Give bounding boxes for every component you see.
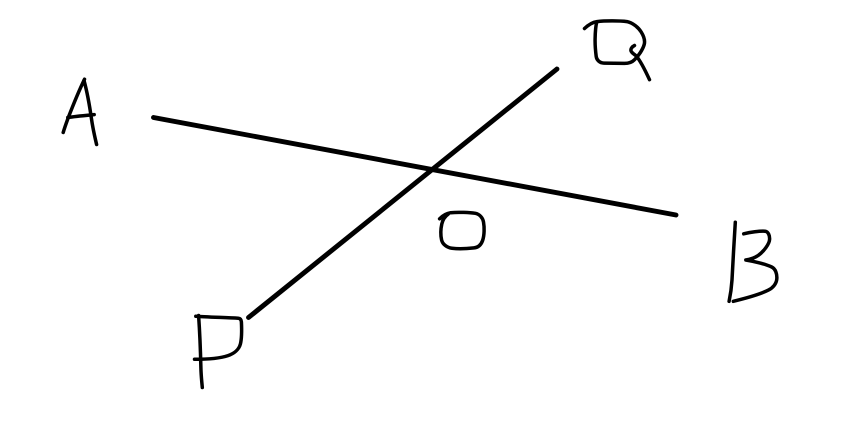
node P: handwritten label P: [195, 316, 242, 388]
node O: handwritten label O (intersection point): [440, 212, 485, 248]
node A: handwritten label A: [63, 79, 96, 144]
wire: line segment P-Q: [249, 69, 558, 318]
node Q: handwritten label Q: [585, 21, 650, 80]
wire: line segment A-B: [154, 118, 677, 216]
node B: handwritten label B: [729, 222, 777, 301]
